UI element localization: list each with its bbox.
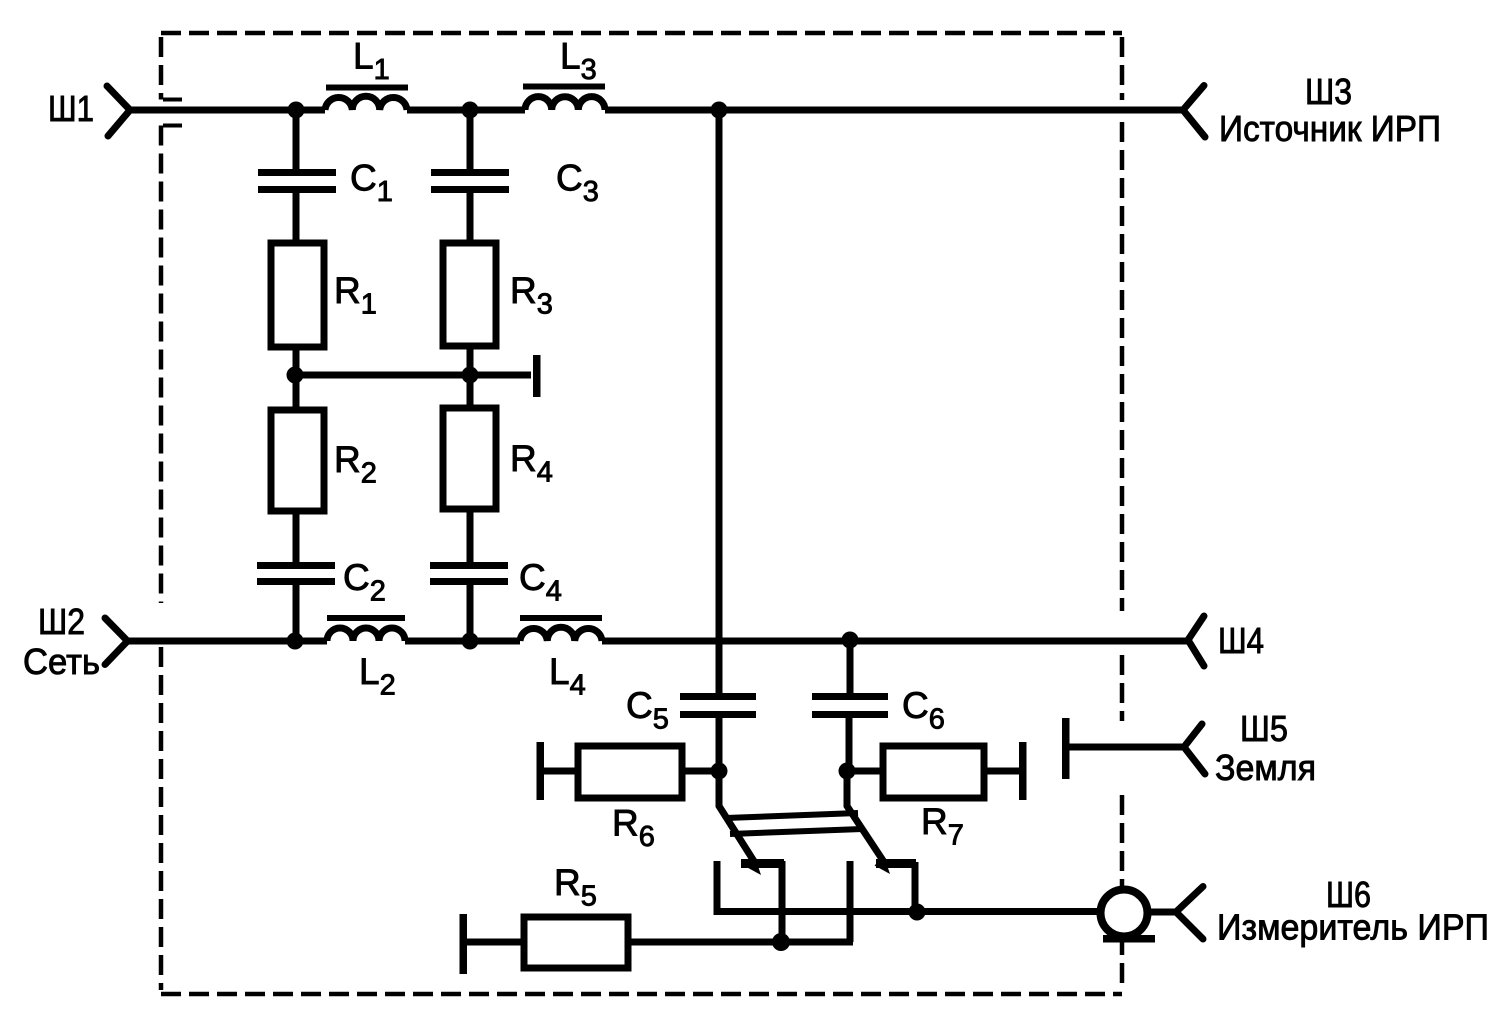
svg-text:L4: L4 xyxy=(549,651,586,702)
inductor L3 xyxy=(523,87,605,111)
svg-text:R3: R3 xyxy=(510,270,553,321)
svg-text:Измеритель ИРП: Измеритель ИРП xyxy=(1217,907,1489,948)
svg-text:Источник ИРП: Источник ИРП xyxy=(1219,108,1441,149)
svg-text:Ш1: Ш1 xyxy=(48,88,94,129)
wire C5-node xyxy=(716,718,723,771)
svg-text:C5: C5 xyxy=(626,685,669,736)
arrowhead S1b xyxy=(875,856,891,874)
inductor L1 xyxy=(325,88,408,111)
wire C3 stub xyxy=(467,110,474,169)
svg-text:R1: R1 xyxy=(334,270,377,321)
wire Ш5 xyxy=(1066,744,1184,751)
wire C5 column xyxy=(716,110,723,693)
capacitor C1 xyxy=(258,169,336,193)
wire R7-bar xyxy=(984,768,1022,775)
wire C1 stub xyxy=(293,110,300,169)
wire R2-C2 xyxy=(293,511,300,562)
wire mid junction xyxy=(295,372,531,379)
terminal bar R5 left xyxy=(460,914,468,974)
resistor R2 xyxy=(271,410,324,511)
wire node-R7 xyxy=(847,768,883,775)
wire bar-R6 xyxy=(540,768,578,775)
wire contact-a drop xyxy=(779,861,786,943)
wire stub C6-throw xyxy=(847,861,854,942)
wire bottom rail xyxy=(128,638,1189,645)
wire R5-V2 xyxy=(628,939,853,946)
svg-text:R7: R7 xyxy=(921,801,964,852)
wire C6-node xyxy=(846,718,853,771)
inductor L4 xyxy=(520,618,602,641)
arrowhead S1a xyxy=(746,857,762,875)
switch link xyxy=(726,813,862,834)
wire top rail xyxy=(130,107,1183,114)
border tab above Ш1 wire xyxy=(163,98,182,102)
node R5 wire xyxy=(772,933,790,951)
svg-text:Ш5: Ш5 xyxy=(1240,708,1288,749)
svg-text:R2: R2 xyxy=(334,439,377,490)
switch arm S1b xyxy=(847,771,886,865)
svg-text:R4: R4 xyxy=(510,438,553,489)
svg-text:Ш2: Ш2 xyxy=(38,601,85,642)
resistor R1 xyxy=(271,243,324,347)
node rail-C2 xyxy=(287,633,304,650)
connector Ш2 xyxy=(105,618,128,665)
wire R1-junction xyxy=(293,347,300,410)
wire meter-Ш6 xyxy=(1150,909,1176,916)
connector Ш4 xyxy=(1188,616,1204,666)
svg-text:Земля: Земля xyxy=(1215,747,1316,788)
node meter wire xyxy=(909,904,926,921)
resistor R4 xyxy=(443,408,496,509)
terminal bar R7 right xyxy=(1019,742,1027,800)
connector Ш3 xyxy=(1183,86,1205,138)
resistor R6 xyxy=(578,746,682,798)
connector Ш1 xyxy=(107,86,130,136)
wire C3-R3 xyxy=(467,193,474,243)
svg-text:L3: L3 xyxy=(560,36,597,87)
node junction R1R2 xyxy=(287,367,304,384)
capacitor C4 xyxy=(430,562,508,585)
resistor R5 xyxy=(524,917,628,968)
capacitor C2 xyxy=(257,562,335,585)
switch arm S1a xyxy=(719,771,757,866)
node junction R3R4 xyxy=(462,367,479,384)
contact bar S1a xyxy=(741,859,784,868)
meter circle Ш6 xyxy=(1101,890,1148,937)
svg-text:R5: R5 xyxy=(554,862,597,913)
svg-text:C1: C1 xyxy=(350,158,393,209)
wire bracket left xyxy=(717,861,1098,912)
node top-C5 xyxy=(711,102,728,119)
contact bar S1b xyxy=(876,859,916,868)
wire bar-R5 xyxy=(463,939,524,946)
node rail-C4 xyxy=(462,633,479,650)
node C6-R7-switch xyxy=(839,763,856,780)
node C5-R6-switch xyxy=(711,763,728,780)
wire C6 column xyxy=(847,640,854,693)
border tab below Ш1 wire xyxy=(163,124,182,128)
svg-text:C3: C3 xyxy=(556,158,599,209)
svg-text:Ш4: Ш4 xyxy=(1218,620,1264,661)
svg-text:C2: C2 xyxy=(343,557,386,608)
wire contact-b drop xyxy=(912,862,919,911)
wire R6-node xyxy=(682,768,719,775)
inductor L2 xyxy=(327,618,405,641)
wire C1-R1 xyxy=(293,193,300,243)
terminal bar R6 left xyxy=(537,742,545,800)
capacitor C6 xyxy=(812,693,888,718)
connector Ш6 xyxy=(1176,887,1203,940)
terminal bar Ш5 xyxy=(1062,718,1070,779)
wire R3-junction xyxy=(467,346,474,408)
node top-C3 xyxy=(462,102,479,119)
svg-text:L2: L2 xyxy=(359,651,396,702)
resistor R3 xyxy=(443,243,496,346)
wire C4-rail xyxy=(467,585,474,641)
capacitor C3 xyxy=(431,169,509,193)
meter base bar xyxy=(1103,935,1155,943)
capacitor C5 xyxy=(680,693,756,718)
ground terminal bar xyxy=(533,355,541,397)
svg-text:C4: C4 xyxy=(519,557,562,608)
resistor R7 xyxy=(883,746,984,798)
enclosure dashed box xyxy=(161,33,1122,994)
connector Ш5 xyxy=(1184,724,1205,774)
svg-text:R6: R6 xyxy=(612,803,655,854)
svg-text:Сеть: Сеть xyxy=(23,641,100,682)
node top-C1 xyxy=(288,102,305,119)
wire C2-rail xyxy=(293,585,300,641)
svg-text:L1: L1 xyxy=(353,36,390,87)
wire R4-C4 xyxy=(467,509,474,562)
node rail-C6 xyxy=(842,632,859,649)
svg-text:Ш3: Ш3 xyxy=(1305,71,1352,112)
svg-text:C6: C6 xyxy=(902,685,945,736)
